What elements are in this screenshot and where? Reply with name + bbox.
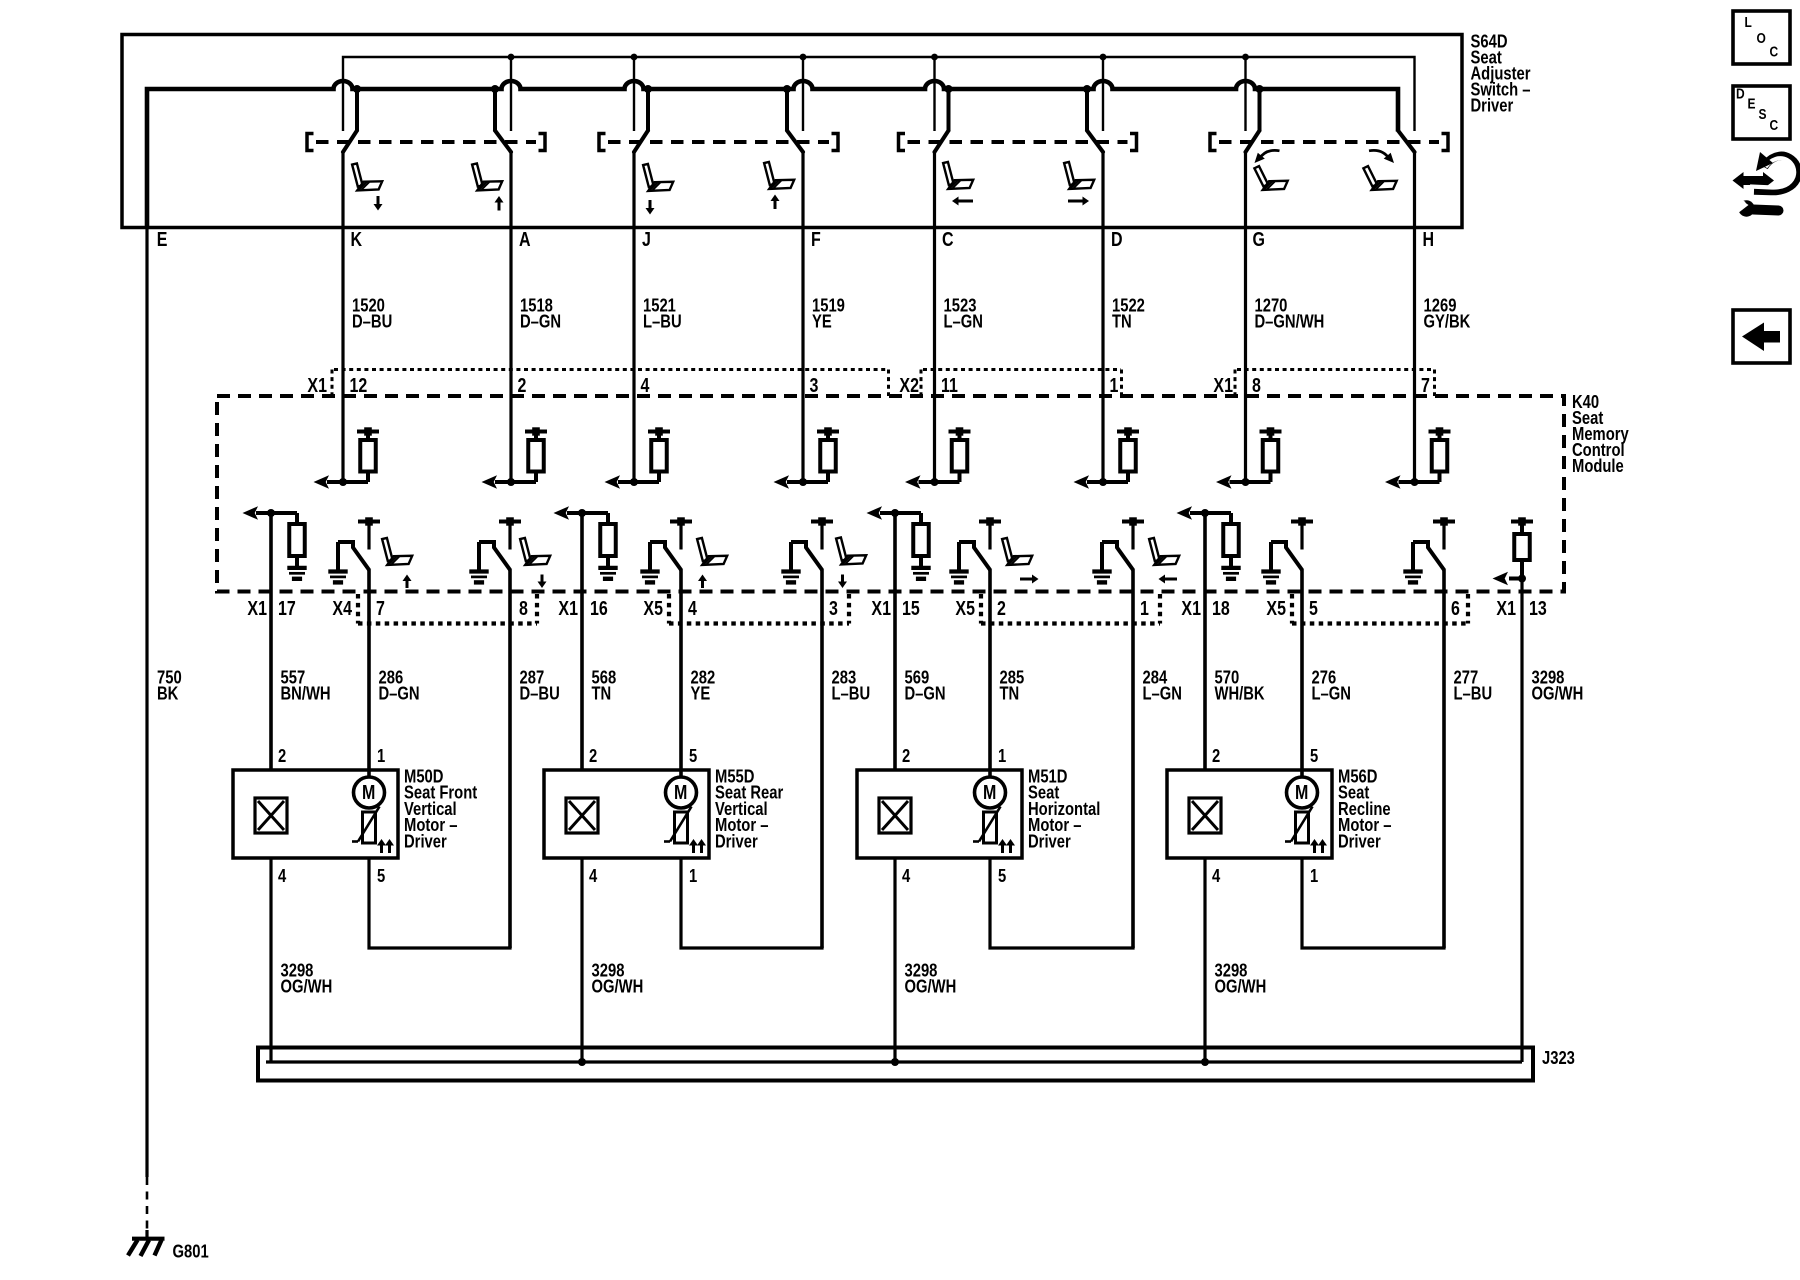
svg-text:X1: X1 bbox=[247, 597, 267, 619]
svg-text:2: 2 bbox=[518, 374, 527, 396]
node: upper bus junction at x=803 bbox=[800, 54, 807, 61]
node: upper bus junction at x=934.5 bbox=[931, 54, 938, 61]
svg-text:4: 4 bbox=[1212, 865, 1221, 886]
svg-text:M: M bbox=[983, 781, 996, 803]
motor M51D box bbox=[857, 770, 1022, 858]
node: feed bus junction bbox=[945, 85, 953, 93]
sensor X-box in M55D bbox=[566, 798, 598, 833]
svg-text:G801: G801 bbox=[172, 1241, 208, 1262]
icon: seat (switch A, up) bbox=[472, 163, 502, 190]
node: feed bus junction bbox=[353, 85, 361, 93]
svg-text:F: F bbox=[811, 228, 821, 250]
wire: switch contact stub from feed bus bbox=[785, 89, 789, 132]
label M51D bbox=[1028, 766, 1100, 852]
svg-text:Module: Module bbox=[1572, 455, 1624, 476]
pin numbers of M55D bbox=[589, 745, 697, 886]
svg-text:E: E bbox=[1748, 95, 1756, 112]
wire: switch contact stub from feed bus bbox=[355, 89, 359, 132]
svg-text:4: 4 bbox=[902, 865, 911, 886]
svg-text:15: 15 bbox=[902, 597, 920, 619]
wire: M50D ground lead 3298 OG/WH bbox=[269, 858, 272, 1062]
node: J323 junction bbox=[578, 1058, 586, 1066]
svg-text:D–GN: D–GN bbox=[520, 311, 561, 332]
labels: switch output circuits bbox=[352, 295, 1470, 332]
svg-text:G: G bbox=[1252, 228, 1264, 250]
input network on pin from switch G: pull-up resistor and sense arrow bbox=[1216, 427, 1282, 489]
driver low-side switch, pin 6 bbox=[1403, 517, 1455, 582]
node: upper bus junction at x=1103 bbox=[1100, 54, 1107, 61]
svg-text:D–GN: D–GN bbox=[904, 683, 945, 704]
svg-text:X1: X1 bbox=[1496, 597, 1516, 619]
node: upper bus junction at x=634 bbox=[631, 54, 638, 61]
wire: switch contact stub from feed bus bbox=[947, 89, 951, 132]
sensor X-box in M51D bbox=[879, 798, 911, 833]
svg-text:5: 5 bbox=[1309, 597, 1318, 619]
icon: seat down (module, pin 8) bbox=[520, 538, 550, 565]
svg-text:1: 1 bbox=[998, 745, 1006, 766]
switch blade K bbox=[343, 131, 357, 153]
svg-text:K: K bbox=[350, 228, 362, 250]
input network on pin from switch K: pull-up resistor and sense arrow bbox=[314, 427, 380, 489]
svg-text:2: 2 bbox=[278, 745, 286, 766]
svg-text:13: 13 bbox=[1529, 597, 1547, 619]
svg-text:E: E bbox=[157, 228, 168, 250]
splice pack J323 bbox=[258, 1048, 1533, 1081]
svg-text:WH/BK: WH/BK bbox=[1214, 683, 1264, 704]
wire: M51D ground lead 3298 OG/WH bbox=[893, 858, 896, 1062]
svg-text:X1: X1 bbox=[1181, 597, 1201, 619]
icon button LOC bbox=[1733, 11, 1790, 64]
motor M56D box bbox=[1167, 770, 1332, 858]
driver low-side switch, pin 3 bbox=[781, 517, 833, 582]
svg-text:TN: TN bbox=[1000, 683, 1020, 704]
wire: switch contact stub from feed bus bbox=[493, 89, 497, 132]
wire: switch common stub bbox=[510, 57, 512, 131]
input network on pin X1-13 (3298 OG/WH): resistor and sense arrow bbox=[1493, 517, 1534, 585]
svg-text:TN: TN bbox=[592, 683, 612, 704]
input network on pin from switch C: pull-up resistor and sense arrow bbox=[905, 427, 971, 489]
svg-text:3: 3 bbox=[810, 374, 819, 396]
label S64D Seat Adjuster Switch Driver bbox=[1470, 31, 1530, 116]
output network on motor-return pin x=895: pull-down resistor to ground and sense arrow bbox=[867, 506, 931, 579]
svg-text:4: 4 bbox=[589, 865, 598, 886]
driver low-side switch, pin 8 bbox=[469, 517, 521, 582]
thermal protector in M55D bbox=[675, 812, 688, 843]
svg-text:12: 12 bbox=[350, 374, 368, 396]
wire: switch contact stub from feed bus bbox=[646, 89, 650, 132]
wire: switch J output bbox=[632, 151, 635, 482]
node: upper bus junction at x=1245.5 bbox=[1242, 54, 1249, 61]
label M55D bbox=[715, 766, 784, 852]
wire: switch common stub bbox=[1102, 57, 1104, 131]
node: feed bus junction bbox=[1256, 85, 1264, 93]
svg-text:X4: X4 bbox=[332, 597, 352, 619]
wire: switch common stub bbox=[633, 57, 635, 131]
svg-text:17: 17 bbox=[278, 597, 296, 619]
wire: switch H output bbox=[1413, 151, 1416, 482]
svg-text:L–BU: L–BU bbox=[1454, 683, 1493, 704]
wire: M56D ground lead 3298 OG/WH bbox=[1203, 858, 1206, 1062]
wire: M50D return loop to second feed bbox=[369, 858, 510, 948]
wire: motor return output x=582 bbox=[580, 513, 584, 770]
svg-text:TN: TN bbox=[1112, 311, 1132, 332]
double up arrows in M56D bbox=[1313, 846, 1316, 854]
node: feed bus junction bbox=[1083, 85, 1091, 93]
svg-text:5: 5 bbox=[377, 865, 385, 886]
wire: M56D return loop to second feed bbox=[1302, 858, 1444, 948]
svg-text:OG/WH: OG/WH bbox=[280, 976, 332, 997]
icon: reclining seat (switch H) bbox=[1363, 166, 1396, 190]
svg-text:A: A bbox=[519, 228, 531, 250]
icon: seat (switch C, rearward) bbox=[943, 162, 973, 189]
label M50D bbox=[404, 766, 478, 852]
svg-text:GY/BK: GY/BK bbox=[1424, 311, 1471, 332]
svg-text:OG/WH: OG/WH bbox=[1214, 976, 1266, 997]
wire: switch D output bbox=[1101, 151, 1104, 482]
driver low-side switch, pin 5 bbox=[1261, 517, 1313, 582]
svg-text:L–GN: L–GN bbox=[1312, 683, 1351, 704]
switch blade D bbox=[1087, 131, 1103, 153]
svg-text:18: 18 bbox=[1212, 597, 1230, 619]
svg-text:L–GN: L–GN bbox=[1142, 683, 1181, 704]
svg-text:1: 1 bbox=[1140, 597, 1149, 619]
module K40 dashed boundary bbox=[217, 396, 1564, 592]
mechanical gang dashed link bbox=[307, 134, 545, 151]
svg-text:X1: X1 bbox=[558, 597, 578, 619]
connector X4/X5 dotted brackets bbox=[358, 594, 1468, 624]
input network on pin from switch D: pull-up resistor and sense arrow bbox=[1074, 427, 1140, 489]
svg-text:7: 7 bbox=[376, 597, 385, 619]
double up arrows in M50D bbox=[380, 846, 383, 854]
wire: switch contact stub from feed bus bbox=[1258, 89, 1262, 132]
input network on pin from switch F: pull-up resistor and sense arrow bbox=[774, 427, 840, 489]
mechanical gang dashed link bbox=[899, 134, 1137, 151]
node: feed bus junction bbox=[491, 85, 499, 93]
icon: seat up (module, pin 4) bbox=[697, 538, 727, 565]
wire: circuit 750 BK from terminal E bbox=[145, 91, 148, 1177]
wire: switch K output bbox=[341, 151, 344, 482]
motor symbol M in M51D bbox=[975, 777, 1006, 808]
wire: switch F output bbox=[801, 151, 804, 482]
wire: M51D return loop to second feed bbox=[990, 858, 1133, 948]
svg-text:X1: X1 bbox=[871, 597, 891, 619]
icon: seat rearward (module, pin 1) bbox=[1149, 538, 1179, 565]
wire: switch common stub bbox=[933, 57, 935, 131]
svg-text:2: 2 bbox=[589, 745, 597, 766]
wire: motor feed x=369 bbox=[367, 570, 371, 778]
label circuit 750 BK bbox=[157, 667, 182, 704]
svg-text:5: 5 bbox=[689, 745, 697, 766]
svg-text:1: 1 bbox=[1110, 374, 1119, 396]
svg-text:X1: X1 bbox=[307, 374, 327, 396]
double up arrows in M55D bbox=[692, 846, 695, 854]
node: feed bus junction bbox=[644, 85, 652, 93]
svg-text:Driver: Driver bbox=[1470, 95, 1513, 116]
node: feed bus junction bbox=[783, 85, 791, 93]
wire: switch C output bbox=[933, 151, 936, 482]
svg-text:C: C bbox=[942, 228, 954, 250]
svg-text:D: D bbox=[1111, 228, 1123, 250]
input network on pin from switch H: pull-up resistor and sense arrow bbox=[1385, 427, 1451, 489]
svg-text:X2: X2 bbox=[899, 374, 919, 396]
icon: navigation arrows with region and wrench bbox=[1733, 152, 1798, 217]
thermal protector in M56D bbox=[1296, 812, 1309, 843]
wire: motor return output x=1205 bbox=[1203, 513, 1207, 770]
icon: seat (switch D, forward) bbox=[1064, 162, 1094, 189]
svg-text:OG/WH: OG/WH bbox=[904, 976, 956, 997]
icon: seat up (module, pin 7) bbox=[382, 538, 412, 565]
svg-text:1: 1 bbox=[689, 865, 697, 886]
driver low-side switch, pin 2 bbox=[949, 517, 1001, 582]
svg-text:X5: X5 bbox=[955, 597, 975, 619]
pin numbers of M56D bbox=[1212, 745, 1318, 886]
output network on motor-return pin x=1205: pull-down resistor to ground and sense arrow bbox=[1177, 506, 1241, 579]
svg-text:L–BU: L–BU bbox=[643, 311, 682, 332]
svg-text:O: O bbox=[1756, 30, 1765, 47]
svg-text:7: 7 bbox=[1421, 374, 1430, 396]
icon: seat forward (module, pin 2) bbox=[1002, 538, 1032, 565]
svg-text:2: 2 bbox=[902, 745, 910, 766]
svg-text:Driver: Driver bbox=[1028, 831, 1071, 852]
labels: connector ids and pin numbers (top) bbox=[307, 374, 1429, 396]
svg-text:X1: X1 bbox=[1213, 374, 1233, 396]
svg-text:X5: X5 bbox=[1266, 597, 1286, 619]
svg-text:S: S bbox=[1758, 106, 1766, 123]
svg-text:8: 8 bbox=[1252, 374, 1261, 396]
svg-text:4: 4 bbox=[640, 374, 649, 396]
svg-text:D–GN/WH: D–GN/WH bbox=[1254, 311, 1324, 332]
label K40 Seat Memory Control Module bbox=[1572, 391, 1629, 476]
wire: M55D return loop to second feed bbox=[681, 858, 822, 948]
svg-text:4: 4 bbox=[688, 597, 697, 619]
svg-text:1: 1 bbox=[1310, 865, 1318, 886]
wire: switch G output bbox=[1244, 151, 1247, 482]
svg-text:X5: X5 bbox=[643, 597, 663, 619]
svg-text:3: 3 bbox=[829, 597, 838, 619]
mechanical gang dashed link bbox=[1210, 134, 1448, 151]
input network on pin from switch A: pull-up resistor and sense arrow bbox=[482, 427, 548, 489]
svg-text:11: 11 bbox=[941, 374, 958, 396]
labels: module-to-motor circuits bbox=[280, 667, 1583, 704]
svg-text:OG/WH: OG/WH bbox=[592, 976, 644, 997]
wire: lower feed bus (from terminal E) with hops bbox=[147, 81, 1398, 228]
node: upper bus junction at x=511 bbox=[508, 54, 515, 61]
svg-text:C: C bbox=[1770, 117, 1779, 134]
icon: seat (switch F, up) bbox=[764, 162, 794, 189]
double up arrows in M51D bbox=[1001, 846, 1004, 854]
svg-text:D–BU: D–BU bbox=[520, 683, 560, 704]
driver low-side switch, pin 1 bbox=[1092, 517, 1144, 582]
svg-text:6: 6 bbox=[1451, 597, 1460, 619]
wire: motor feed x=681 bbox=[679, 570, 683, 778]
svg-text:L–BU: L–BU bbox=[832, 683, 871, 704]
wire: upper bus of switch commons bbox=[343, 57, 1415, 131]
svg-text:YE: YE bbox=[690, 683, 710, 704]
svg-text:J323: J323 bbox=[1542, 1047, 1575, 1068]
label M56D bbox=[1338, 766, 1391, 852]
svg-text:H: H bbox=[1422, 228, 1434, 250]
node: J323 junction bbox=[891, 1058, 899, 1066]
icon: reclining seat (switch G) bbox=[1254, 166, 1287, 190]
svg-text:Driver: Driver bbox=[404, 831, 447, 852]
icon button DESC bbox=[1733, 85, 1790, 139]
labels: 3298 OG/WH ground circuits bbox=[280, 960, 1266, 997]
wire: switch common stub bbox=[1244, 57, 1246, 131]
wire: M55D ground lead 3298 OG/WH bbox=[580, 858, 583, 1062]
wire: motor feed x=990 bbox=[988, 570, 992, 778]
svg-text:M: M bbox=[1295, 781, 1308, 803]
switch blade A bbox=[495, 131, 511, 153]
svg-text:2: 2 bbox=[997, 597, 1006, 619]
switch blade F bbox=[787, 131, 803, 153]
svg-text:C: C bbox=[1770, 43, 1779, 60]
wire: motor feed x=510 (routes below motor) bbox=[508, 570, 512, 948]
wire: motor feed x=822 (routes below motor) bbox=[820, 570, 824, 948]
switch assembly S64D box bbox=[122, 35, 1462, 228]
motor symbol M in M56D bbox=[1287, 777, 1318, 808]
input network on pin from switch J: pull-up resistor and sense arrow bbox=[605, 427, 671, 489]
svg-text:2: 2 bbox=[1212, 745, 1220, 766]
switch blade C bbox=[935, 131, 949, 153]
wire: motor feed x=1133 (routes below motor) bbox=[1131, 570, 1135, 948]
icon: seat down (module, pin 3) bbox=[836, 537, 866, 564]
output network on motor-return pin x=271: pull-down resistor to ground and sense arrow bbox=[243, 506, 307, 579]
sensor X-box in M56D bbox=[1189, 798, 1221, 833]
driver low-side switch, pin 4 bbox=[640, 517, 692, 582]
pin numbers of M50D bbox=[278, 745, 385, 886]
svg-text:D–BU: D–BU bbox=[352, 311, 392, 332]
wire: circuit 3298 OG/WH from X1-13 bbox=[1520, 579, 1523, 1063]
svg-text:Driver: Driver bbox=[715, 831, 758, 852]
switch blade G bbox=[1246, 131, 1260, 153]
icon: seat (switch K, down) bbox=[352, 163, 382, 190]
svg-text:5: 5 bbox=[998, 865, 1006, 886]
wire: switch A output bbox=[509, 151, 512, 482]
svg-text:BN/WH: BN/WH bbox=[280, 683, 330, 704]
svg-text:M: M bbox=[362, 781, 375, 803]
wire: motor feed x=1302 bbox=[1300, 570, 1304, 778]
svg-text:1: 1 bbox=[377, 745, 385, 766]
svg-text:Driver: Driver bbox=[1338, 831, 1381, 852]
svg-text:5: 5 bbox=[1310, 745, 1318, 766]
motor M50D box bbox=[233, 770, 398, 858]
svg-text:YE: YE bbox=[812, 311, 832, 332]
motor M55D box bbox=[544, 770, 709, 858]
connector X1/X2 dotted outline (top of K40) bbox=[332, 370, 1435, 397]
svg-text:L–GN: L–GN bbox=[944, 311, 983, 332]
mechanical gang dashed link bbox=[599, 134, 838, 151]
wire: switch contact stub from feed bus bbox=[1085, 89, 1089, 132]
svg-text:M: M bbox=[674, 781, 687, 803]
terminal letters of S64D bbox=[157, 228, 1434, 250]
icon button back-arrow bbox=[1733, 310, 1790, 363]
thermal protector in M51D bbox=[984, 812, 997, 843]
icon: seat (switch J, down) bbox=[643, 164, 673, 191]
sensor X-box in M50D bbox=[255, 798, 287, 833]
node: J323 junction bbox=[1201, 1058, 1209, 1066]
output network on motor-return pin x=582: pull-down resistor to ground and sense arrow bbox=[554, 506, 618, 579]
switch blade H bbox=[1398, 131, 1415, 153]
svg-text:D–GN: D–GN bbox=[378, 683, 419, 704]
motor symbol M in M55D bbox=[666, 777, 697, 808]
svg-text:J: J bbox=[642, 228, 651, 250]
svg-text:D: D bbox=[1736, 85, 1745, 102]
driver low-side switch, pin 7 bbox=[328, 517, 380, 582]
pin numbers of M51D bbox=[902, 745, 1006, 886]
wire: motor return output x=895 bbox=[893, 513, 897, 770]
wire: switch common stub bbox=[802, 57, 804, 131]
ground G801 bbox=[128, 1230, 165, 1256]
svg-text:8: 8 bbox=[519, 597, 528, 619]
switch blade J bbox=[634, 131, 648, 153]
motor symbol M in M50D bbox=[354, 777, 385, 808]
svg-text:L: L bbox=[1744, 14, 1751, 31]
svg-text:OG/WH: OG/WH bbox=[1532, 683, 1584, 704]
svg-text:4: 4 bbox=[278, 865, 287, 886]
svg-text:16: 16 bbox=[590, 597, 608, 619]
labels: connector ids and pin numbers (bottom of K40) bbox=[247, 597, 1546, 619]
thermal protector in M50D bbox=[363, 812, 376, 843]
svg-text:BK: BK bbox=[157, 683, 178, 704]
wire: motor return output x=271 bbox=[269, 513, 273, 770]
wire: motor feed x=1444 (routes below motor) bbox=[1442, 570, 1446, 948]
